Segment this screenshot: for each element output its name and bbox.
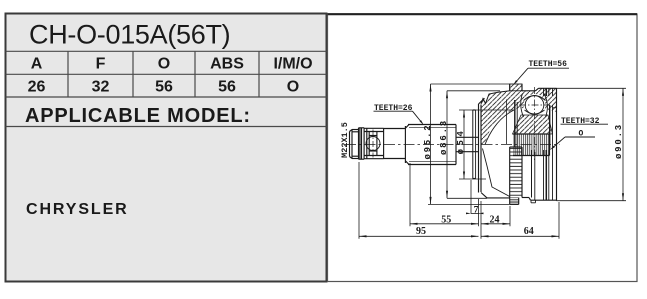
svg-text:A: A [31, 56, 43, 73]
svg-text:ø86.3: ø86.3 [439, 119, 449, 155]
svg-text:M22X1.5: M22X1.5 [340, 122, 350, 158]
svg-text:32: 32 [92, 79, 110, 96]
svg-text:55: 55 [441, 214, 451, 225]
svg-text:ø90.3: ø90.3 [614, 123, 624, 159]
svg-text:CHRYSLER: CHRYSLER [26, 201, 129, 218]
svg-text:95: 95 [416, 226, 426, 237]
svg-text:26: 26 [28, 79, 46, 96]
svg-text:ø54: ø54 [456, 128, 466, 155]
svg-text:7: 7 [474, 205, 479, 215]
svg-text:O: O [287, 79, 299, 96]
svg-text:24: 24 [490, 214, 500, 225]
svg-text:CH-O-015A(56T): CH-O-015A(56T) [29, 20, 230, 50]
svg-text:ABS: ABS [210, 56, 244, 73]
svg-text:O: O [158, 56, 170, 73]
svg-text:TEETH=56: TEETH=56 [529, 60, 568, 69]
svg-text:64: 64 [524, 226, 534, 237]
svg-text:F: F [96, 56, 106, 73]
svg-text:56: 56 [218, 79, 236, 96]
svg-text:I/M/O: I/M/O [273, 56, 312, 73]
svg-text:ø95.2: ø95.2 [423, 123, 433, 159]
svg-text:APPLICABLE MODEL:: APPLICABLE MODEL: [25, 105, 251, 127]
svg-text:56: 56 [155, 79, 173, 96]
